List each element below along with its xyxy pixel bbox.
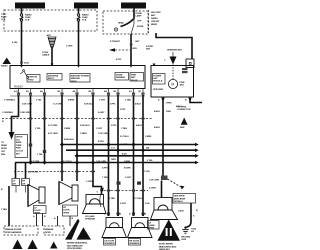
ground symbol G305 bbox=[181, 226, 197, 241]
power antenna feed wire top right bbox=[156, 33, 192, 59]
wire color labels under connector bbox=[4, 99, 141, 106]
svg-text:3 YEL: 3 YEL bbox=[35, 128, 41, 130]
inline connectors on wires B C bbox=[29, 144, 46, 154]
svg-text:2 YEL: 2 YEL bbox=[147, 160, 153, 162]
svg-text:DR: DR bbox=[13, 183, 16, 185]
svg-text:ANT: ANT bbox=[146, 48, 151, 51]
svg-text:RELAY: RELAY bbox=[131, 79, 138, 82]
svg-text:SPKR: SPKR bbox=[148, 228, 154, 230]
svg-text:10 A: 10 A bbox=[82, 19, 87, 22]
wire D bbox=[61, 96, 63, 181]
svg-text:A LT GRN: A LT GRN bbox=[48, 132, 58, 135]
wires into S3/S4 pins bbox=[104, 213, 147, 216]
svg-text:CONNECTOR: CONNECTOR bbox=[177, 109, 191, 111]
big triangle T1 bbox=[65, 219, 91, 240]
dashed stub top right bbox=[148, 10, 150, 33]
wire F bbox=[92, 96, 94, 186]
svg-text:4 BLK: 4 BLK bbox=[154, 126, 160, 129]
label CTSY FUSE bbox=[1, 14, 7, 21]
svg-text:HOT AT ALL TIMES: HOT AT ALL TIMES bbox=[76, 5, 97, 8]
svg-text:SEEK: SEEK bbox=[16, 142, 22, 144]
svg-text:3 PPL: 3 PPL bbox=[120, 109, 126, 111]
svg-text:PWR: PWR bbox=[131, 75, 136, 77]
switch labels bbox=[118, 13, 144, 28]
svg-text:HEAD: HEAD bbox=[118, 22, 124, 25]
pin letters A B above bottom wires bbox=[33, 215, 74, 220]
svg-text:3 YEL: 3 YEL bbox=[36, 100, 42, 102]
svg-text:PWR: PWR bbox=[16, 148, 21, 150]
speaker S3 bbox=[102, 218, 127, 238]
svg-text:LR: LR bbox=[148, 222, 151, 224]
svg-text:E TN/WHT: E TN/WHT bbox=[110, 41, 121, 43]
svg-text:ANT: ANT bbox=[153, 77, 158, 80]
svg-text:W/BASE: W/BASE bbox=[45, 228, 54, 231]
wire B bbox=[30, 96, 32, 164]
svg-text:RR DOOR: RR DOOR bbox=[129, 240, 139, 242]
svg-text:SPKR: SPKR bbox=[63, 212, 69, 214]
wire C bbox=[44, 96, 46, 164]
svg-text:LR QUAD: LR QUAD bbox=[85, 215, 95, 218]
wire fuse1 down to radio bbox=[21, 21, 23, 66]
svg-text:B YEL: B YEL bbox=[98, 141, 105, 143]
svg-text:RADIO: RADIO bbox=[1, 65, 8, 68]
svg-text:SPEAKER ANT: SPEAKER ANT bbox=[167, 49, 182, 52]
svg-text:1 TAN: 1 TAN bbox=[109, 197, 115, 200]
label E TN/WHT GRY bbox=[110, 41, 140, 43]
svg-text:RADIO: RADIO bbox=[151, 17, 158, 20]
radio internal text box 4 bbox=[115, 73, 129, 81]
svg-text:TO SPKR: TO SPKR bbox=[177, 107, 187, 109]
dashed label box bottom 1 bbox=[4, 226, 38, 235]
svg-text:IGNITION: IGNITION bbox=[28, 77, 38, 79]
wire fuse2 down to radio bbox=[78, 21, 80, 66]
svg-text:VOL: VOL bbox=[16, 139, 21, 141]
svg-text:W/BASE SOUND: W/BASE SOUND bbox=[5, 228, 22, 231]
svg-text:CABLE: CABLE bbox=[42, 54, 50, 57]
stubs below LF boxes bbox=[16, 186, 26, 193]
center speaker label bbox=[85, 215, 96, 221]
labels near K bbox=[149, 180, 159, 190]
svg-text:NOTE: REFER: NOTE: REFER bbox=[159, 244, 173, 246]
dashed connector line 3 bbox=[100, 188, 148, 192]
svg-text:4 PPL: 4 PPL bbox=[116, 58, 122, 61]
speaker S5 bbox=[151, 198, 178, 220]
label RADIO bbox=[14, 85, 24, 89]
wire F elbow into center speaker bbox=[86, 181, 102, 195]
refer text bbox=[67, 242, 88, 250]
header box HOT IN ACC OR RUN bbox=[15, 3, 45, 9]
svg-text:GRY: GRY bbox=[135, 41, 140, 43]
radio internal text box 3 bbox=[70, 74, 90, 83]
svg-text:CIRCUIT: CIRCUIT bbox=[151, 21, 160, 23]
wire K to S5 bbox=[161, 181, 163, 198]
svg-text:2 GRY: 2 GRY bbox=[120, 203, 127, 205]
svg-text:2 LT BLU: 2 LT BLU bbox=[120, 136, 129, 138]
ground wire right bbox=[178, 203, 198, 227]
svg-text:MDL: MDL bbox=[1, 154, 6, 156]
svg-text:1 ORN/BLK: 1 ORN/BLK bbox=[2, 112, 14, 114]
svg-text:2 PPL: 2 PPL bbox=[111, 125, 117, 127]
wire G bbox=[108, 96, 110, 216]
svg-text:MEASURING AND: MEASURING AND bbox=[159, 245, 177, 248]
coax cable bbox=[42, 47, 52, 66]
svg-text:SPKR HARNESS: SPKR HARNESS bbox=[5, 231, 22, 234]
center speaker dome box bbox=[86, 195, 104, 205]
svg-text:1 LT BLU: 1 LT BLU bbox=[134, 198, 143, 200]
antenna mast symbol bbox=[47, 34, 57, 47]
svg-text:AND HANDLING: AND HANDLING bbox=[67, 244, 83, 247]
radio internal switch bbox=[20, 70, 29, 79]
radio internal text box 5 bbox=[130, 73, 144, 82]
svg-text:MODULE: MODULE bbox=[153, 81, 163, 83]
label RADIO FUSE 1 bbox=[82, 14, 89, 22]
svg-text:4 DK: 4 DK bbox=[122, 153, 127, 156]
svg-text:HOT IN ACC OR RUN: HOT IN ACC OR RUN bbox=[18, 5, 42, 8]
svg-text:DETAILS: DETAILS bbox=[174, 200, 183, 203]
svg-text:G305: G305 bbox=[191, 229, 197, 231]
svg-text:M: M bbox=[171, 82, 174, 86]
svg-text:RADIO: RADIO bbox=[14, 85, 24, 89]
center speaker skirt bbox=[83, 204, 107, 214]
TO AMPLIFIER text + warning triangle bbox=[177, 107, 191, 130]
svg-text:RADIO: RADIO bbox=[82, 14, 89, 17]
speaker bus bars bbox=[62, 143, 199, 147]
svg-text:4 DK GRN: 4 DK GRN bbox=[28, 171, 38, 174]
svg-text:ANT: ANT bbox=[47, 34, 52, 37]
svg-text:SPKR: SPKR bbox=[45, 232, 51, 234]
coax connector tick bbox=[51, 64, 54, 67]
pin letters bbox=[14, 90, 142, 93]
big triangle T2 bbox=[157, 219, 180, 240]
radio top entry ticks bbox=[20, 66, 132, 68]
label 4 PPL/WHT bbox=[116, 58, 122, 61]
svg-text:A GRY: A GRY bbox=[98, 111, 105, 114]
svg-text:TUNE: TUNE bbox=[16, 145, 22, 147]
svg-text:COAX: COAX bbox=[42, 51, 49, 54]
drops from bar to LF boxes bbox=[16, 163, 26, 179]
triangle symbol 203 left bbox=[1, 58, 11, 68]
svg-text:1 DK GRN: 1 DK GRN bbox=[96, 161, 106, 163]
svg-text:1 ORN/BLK: 1 ORN/BLK bbox=[4, 100, 16, 102]
PA mast dashes to motor bbox=[172, 65, 174, 80]
svg-text:CKT: CKT bbox=[1, 151, 6, 153]
splice S210 bbox=[20, 62, 29, 65]
svg-text:1 LT GRN: 1 LT GRN bbox=[30, 161, 40, 163]
svg-text:B GRN: B GRN bbox=[124, 168, 131, 170]
svg-text:BRKR: BRKR bbox=[151, 24, 157, 26]
svg-text:1 TAN: 1 TAN bbox=[102, 176, 108, 179]
svg-text:3 TAN: 3 TAN bbox=[121, 127, 127, 130]
S4 label box bbox=[129, 239, 141, 246]
header box HOT AT ALL TIMES (left) bbox=[74, 3, 98, 9]
svg-text:CLOCK: CLOCK bbox=[16, 151, 24, 153]
wire J bbox=[142, 96, 144, 216]
small connector boxes LF bbox=[12, 179, 20, 186]
svg-text:ANT: ANT bbox=[180, 84, 185, 87]
svg-text:SPEAKER: SPEAKER bbox=[85, 218, 96, 221]
svg-text:DOOR: DOOR bbox=[34, 210, 41, 212]
K wire connector + dashes to distribution bbox=[161, 176, 185, 190]
dashed connector line 2 bbox=[14, 169, 95, 173]
label A PWR ANT bbox=[146, 45, 153, 51]
wire H bbox=[117, 96, 119, 216]
svg-text:FEED: FEED bbox=[71, 81, 77, 83]
svg-text:2 DK: 2 DK bbox=[145, 203, 150, 205]
svg-text:1 ORN: 1 ORN bbox=[66, 46, 73, 48]
S1 label box bbox=[34, 206, 47, 215]
svg-text:UP/DN: UP/DN bbox=[16, 137, 23, 139]
svg-text:GRN: GRN bbox=[111, 159, 116, 161]
label 4 YEL bbox=[12, 41, 18, 44]
svg-text:DOME: DOME bbox=[137, 26, 144, 28]
S5 label box bbox=[148, 221, 160, 230]
svg-text:1 GRY: 1 GRY bbox=[96, 128, 103, 130]
svg-text:LAMP: LAMP bbox=[136, 15, 142, 18]
svg-text:DOME: DOME bbox=[116, 75, 123, 77]
PA mast triangle bbox=[164, 52, 177, 65]
svg-text:4 BLK: 4 BLK bbox=[154, 110, 160, 113]
fuse F1 bbox=[20, 14, 23, 21]
svg-text:G305: G305 bbox=[181, 239, 187, 241]
wire E bbox=[76, 96, 78, 181]
svg-text:A PWR: A PWR bbox=[146, 45, 153, 48]
speaker S1 LF door bbox=[28, 185, 45, 207]
svg-text:LR DOOR: LR DOOR bbox=[104, 240, 114, 242]
note text under T2 bbox=[159, 244, 177, 250]
TO label + note box bottom left bbox=[1, 142, 7, 156]
warning triangle T5 bbox=[50, 242, 58, 249]
distribution box bbox=[173, 194, 196, 204]
svg-text:INPUT: INPUT bbox=[48, 78, 55, 80]
curved cable arrow left of S3 bbox=[100, 188, 104, 208]
svg-text:DIMMING: DIMMING bbox=[116, 77, 126, 79]
bar junctions bbox=[28, 142, 145, 164]
PA small box connector bbox=[186, 59, 194, 68]
pin ticks above S3 S4 bbox=[107, 213, 144, 216]
svg-text:10 A: 10 A bbox=[1, 18, 6, 21]
svg-text:3 TAN: 3 TAN bbox=[125, 99, 131, 102]
svg-text:ANT: ANT bbox=[131, 76, 136, 79]
svg-text:ANT: ANT bbox=[151, 14, 156, 17]
svg-text:S DK GRN: S DK GRN bbox=[20, 112, 31, 114]
label RADIO FUSE 10A bbox=[25, 14, 32, 22]
svg-text:POWER: POWER bbox=[153, 75, 161, 77]
svg-text:SPKR: SPKR bbox=[1, 148, 7, 150]
dashed label box bottom 2 bbox=[44, 226, 64, 235]
svg-text:4 YEL: 4 YEL bbox=[12, 41, 18, 44]
wire I bbox=[133, 96, 135, 216]
svg-text:AMPLIFIER: AMPLIFIER bbox=[174, 197, 186, 200]
svg-text:GROUND: GROUND bbox=[181, 237, 191, 239]
svg-text:1 DK GRN: 1 DK GRN bbox=[149, 180, 159, 182]
PA top tick bbox=[153, 64, 156, 67]
PA pins bottom bbox=[158, 97, 191, 108]
dashed arrow to dimmer bbox=[109, 48, 137, 52]
svg-text:1 BRN: 1 BRN bbox=[145, 136, 152, 138]
svg-text:FEED: FEED bbox=[28, 79, 34, 81]
fuse block dashed box bbox=[4, 10, 97, 31]
S1/S2 label pins down bbox=[37, 214, 71, 227]
svg-text:4 BLK: 4 BLK bbox=[136, 124, 142, 127]
svg-text:B DK BLU: B DK BLU bbox=[64, 139, 74, 141]
svg-text:5 DK BLU: 5 DK BLU bbox=[80, 125, 90, 127]
svg-text:1 YEL: 1 YEL bbox=[37, 154, 43, 156]
labels above S3/S4 bbox=[109, 197, 150, 205]
warning triangle T4 bbox=[28, 240, 38, 250]
radio internal text box 2 bbox=[47, 74, 62, 81]
left wire to bottom bbox=[1, 186, 9, 226]
svg-text:2 LT GRN: 2 LT GRN bbox=[48, 125, 58, 127]
svg-text:QUAD: QUAD bbox=[148, 224, 155, 227]
svg-text:2 GRY: 2 GRY bbox=[125, 177, 132, 179]
svg-text:TO: TO bbox=[1, 142, 4, 144]
svg-text:4 BRN: 4 BRN bbox=[68, 99, 75, 102]
PA internal text box bbox=[153, 74, 166, 91]
svg-text:A PPL: A PPL bbox=[102, 167, 109, 170]
switch arc bbox=[121, 18, 135, 34]
svg-text:SPEAKER: SPEAKER bbox=[104, 242, 115, 245]
warning triangle T3 bbox=[13, 240, 23, 250]
radio box bbox=[10, 66, 145, 89]
svg-text:ORN: ORN bbox=[132, 48, 137, 50]
S2 label box bbox=[63, 205, 78, 216]
inline connectors right wires bbox=[117, 182, 142, 185]
svg-text:1 TAN: 1 TAN bbox=[1, 208, 7, 211]
S3 label box bbox=[104, 239, 116, 246]
speaker S4 bbox=[128, 218, 153, 238]
svg-text:DOOR: DOOR bbox=[63, 210, 70, 212]
svg-text:SPKR: SPKR bbox=[34, 213, 40, 215]
svg-text:UP/DOWN: UP/DOWN bbox=[153, 89, 164, 91]
switch wire down with labels bbox=[130, 34, 133, 66]
svg-text:BATTERY POWER: BATTERY POWER bbox=[71, 75, 89, 78]
label pwr ant lead bbox=[167, 49, 182, 52]
svg-text:1 GRN: 1 GRN bbox=[86, 181, 93, 183]
svg-text:DR: DR bbox=[22, 183, 25, 185]
header box HOT AT ALL TIMES (right) bbox=[121, 3, 146, 9]
svg-text:REAR: REAR bbox=[1, 144, 7, 147]
wire B2 to fuse2 bbox=[78, 9, 80, 15]
svg-text:3 LT BLU: 3 LT BLU bbox=[63, 161, 72, 163]
wire B3 down to switch bbox=[133, 9, 135, 19]
svg-text:ANTENNA: ANTENNA bbox=[48, 75, 59, 78]
radio internal text box 1 bbox=[27, 75, 40, 83]
svg-text:RADIO: RADIO bbox=[25, 14, 32, 17]
svg-text:1 GRY: 1 GRY bbox=[99, 100, 106, 102]
wire K PA down bbox=[162, 97, 164, 176]
speaker S2 side view bbox=[59, 182, 78, 205]
dome lamp switch dashed box bbox=[103, 11, 148, 34]
note box bbox=[15, 135, 28, 158]
svg-text:4 BLK: 4 BLK bbox=[135, 103, 141, 106]
fuse F2 bbox=[77, 14, 80, 21]
svg-text:C BRN: C BRN bbox=[80, 133, 87, 135]
svg-text:REFER MEASURING: REFER MEASURING bbox=[67, 242, 88, 245]
wire A elbow arrow bbox=[9, 96, 19, 140]
bar labels bbox=[28, 147, 153, 174]
radio connector line bbox=[10, 95, 145, 97]
lamp circle bbox=[114, 28, 117, 31]
PA pins top right bbox=[182, 68, 188, 73]
PA motor bbox=[168, 79, 184, 88]
PA wire right exits bbox=[190, 97, 202, 103]
label 1 ORN bbox=[66, 46, 73, 48]
svg-text:A ORN: A ORN bbox=[149, 187, 156, 190]
svg-text:SEE SPKR: SEE SPKR bbox=[174, 196, 185, 198]
svg-text:1 BRN: 1 BRN bbox=[64, 128, 71, 130]
svg-text:10 A: 10 A bbox=[25, 19, 30, 22]
svg-text:AMP: AMP bbox=[180, 126, 185, 129]
svg-text:1 BLK: 1 BLK bbox=[178, 211, 184, 213]
wire B1 to fuse1 bbox=[21, 9, 23, 15]
svg-text:2 PPL: 2 PPL bbox=[110, 104, 116, 106]
top right text W/O PWR ANT bbox=[151, 12, 161, 26]
svg-text:W/O PWR: W/O PWR bbox=[151, 12, 161, 14]
harness connector dashed line bbox=[2, 116, 153, 120]
svg-text:2 BRN: 2 BRN bbox=[124, 161, 131, 163]
svg-text:1 DK GRN: 1 DK GRN bbox=[98, 133, 108, 135]
svg-text:C YEL: C YEL bbox=[144, 171, 151, 173]
labels mid band bbox=[2, 109, 172, 179]
pin stubs and trapezoids bbox=[17, 89, 144, 97]
svg-text:SPEAKER: SPEAKER bbox=[129, 242, 140, 245]
svg-text:HOT AT ALL TIMES: HOT AT ALL TIMES bbox=[123, 5, 144, 8]
svg-text:1 PNK: 1 PNK bbox=[166, 103, 173, 105]
power antenna box bbox=[151, 66, 194, 98]
